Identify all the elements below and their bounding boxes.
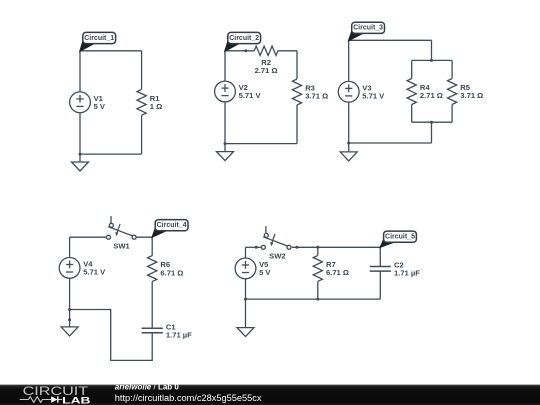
node c3 rail bottom junction (430, 121, 433, 124)
svg-text:2.71 Ω: 2.71 Ω (420, 91, 443, 100)
node c5 top junction b (295, 246, 298, 249)
wire c3 rail top (412, 59, 452, 61)
svg-text:LAB: LAB (62, 395, 90, 405)
svg-text:1 Ω: 1 Ω (150, 102, 162, 111)
wire c1 right lower (141, 115, 143, 154)
footer title text (115, 383, 180, 392)
svg-text:1.71 µF: 1.71 µF (166, 330, 192, 339)
net label Circuit_4 (152, 220, 188, 238)
wire c4 C1 bottom path (70, 310, 153, 361)
svg-text:SW1: SW1 (113, 241, 130, 250)
switch SW1 (107, 216, 137, 250)
wire c2 left upper (224, 51, 226, 81)
wire c1 left upper (79, 51, 81, 92)
wire c5 R7 lead dn (317, 281, 319, 299)
wire c3 gnd stem (348, 143, 350, 152)
resistor R3 (292, 79, 328, 105)
svg-text:5.71 V: 5.71 V (362, 92, 385, 101)
capacitor C2 (370, 261, 421, 278)
wire c5 node down (379, 247, 381, 266)
ground c2 (217, 152, 234, 161)
node c3 rail top junction (430, 59, 433, 62)
wire c4 node down (151, 237, 153, 255)
svg-text:1.71 µF: 1.71 µF (394, 269, 420, 278)
resistor R5 (448, 79, 484, 105)
wire c2 top left (225, 50, 254, 52)
wire c4 R6 to C1 (151, 282, 153, 329)
net label Circuit_2 (225, 32, 261, 51)
wire c5 V5 to top vertical (245, 247, 247, 258)
footer bar (0, 385, 540, 405)
wire c3 bottom (349, 142, 432, 144)
wire c4 V4 to switch vertical (69, 237, 71, 257)
node c2 top junction (244, 49, 247, 52)
wire c3 R5 lead up (451, 60, 453, 78)
resistor R1 (137, 89, 162, 115)
CircuitLab logo resistor-diode glyph (20, 396, 63, 402)
wire c5 gnd stem (245, 299, 247, 328)
node c5 top junction a (255, 246, 258, 249)
svg-text:http://circuitlab.com/c28x5g55: http://circuitlab.com/c28x5g55e55cx (115, 393, 262, 403)
voltage source V3 (338, 81, 385, 102)
wire c2 left lower (224, 102, 226, 144)
wire c4 V4 lower (69, 278, 71, 309)
svg-text:Circuit_2: Circuit_2 (229, 35, 259, 42)
svg-text:arielwolle / Lab 0: arielwolle / Lab 0 (115, 383, 180, 392)
net label Circuit_1 (80, 32, 116, 51)
svg-text:Circuit_5: Circuit_5 (385, 234, 415, 241)
ground c5 (237, 328, 254, 337)
node c4 gnd terminal (68, 318, 71, 321)
wire c2 bottom (225, 143, 297, 145)
wire c3 R4 lead dn (411, 105, 413, 123)
CircuitLab logo wordmark LAB (62, 395, 90, 405)
svg-text:Circuit_3: Circuit_3 (353, 25, 383, 32)
node c5 gnd junction (244, 298, 247, 301)
resistor R2 (254, 46, 278, 75)
net label Circuit_3 (348, 22, 384, 41)
wire c5 top seg1 (246, 246, 262, 248)
wire c2 top right (278, 50, 297, 52)
node c4 tee junction (68, 308, 71, 311)
wire c4 switch to node (136, 236, 152, 238)
wire c3 left lower (348, 102, 350, 143)
voltage source V5 (235, 258, 271, 279)
wire c3 top (349, 39, 432, 41)
svg-text:5.71 V: 5.71 V (239, 91, 262, 100)
footer url text (115, 393, 262, 403)
wire c5 R7 lead up (317, 247, 319, 255)
wire c4 gnd stem (69, 310, 71, 327)
wire c5 V5 lower (245, 279, 247, 299)
net label Circuit_5 (380, 231, 416, 247)
svg-text:Circuit_4: Circuit_4 (157, 222, 187, 229)
node c2 gnd junction (224, 142, 227, 145)
switch SW2 (261, 226, 291, 260)
svg-text:Circuit_1: Circuit_1 (84, 35, 114, 42)
node c5 bottom junction R7 (316, 298, 319, 301)
resistor R7 (313, 255, 349, 281)
svg-text:3.71 Ω: 3.71 Ω (460, 91, 483, 100)
svg-text:2.71 Ω: 2.71 Ω (255, 66, 278, 75)
wire c4 top left (70, 236, 107, 238)
CircuitLab logo wordmark CIRCUIT (23, 384, 89, 398)
svg-text:3.71 Ω: 3.71 Ω (305, 92, 328, 101)
wire c5 top seg2 (292, 246, 381, 248)
svg-text:5 V: 5 V (94, 102, 106, 111)
resistor R4 (407, 79, 443, 105)
ground c3 (340, 152, 357, 161)
wire c1 left lower (79, 113, 81, 154)
svg-text:6.71 Ω: 6.71 Ω (326, 268, 349, 277)
wire c3 feed down (431, 40, 433, 60)
wire c2 gnd stem (224, 144, 226, 152)
node c1 gnd junction (79, 153, 82, 156)
node c5 top junction R7 (316, 246, 319, 249)
wire c1 top (80, 50, 142, 52)
wire c3 R5 lead dn (451, 105, 453, 123)
wire c3 R4 lead up (411, 60, 413, 78)
wire c3 down from rail (431, 122, 433, 143)
wire c1 gnd stem (79, 154, 81, 162)
wire c2 right lower (296, 105, 298, 144)
wire c5 bottom (246, 298, 381, 300)
ground c1 (72, 162, 89, 171)
wire c1 bottom (80, 153, 142, 155)
svg-text:SW2: SW2 (269, 251, 285, 260)
wire c3 rail bottom (412, 121, 452, 123)
resistor R6 (148, 256, 184, 282)
node c3 gnd junction (347, 142, 350, 145)
voltage source V4 (59, 258, 106, 279)
capacitor C1 (142, 322, 193, 339)
voltage source V1 (70, 92, 106, 113)
wire c2 right upper (296, 51, 298, 79)
wire c1 right upper (141, 51, 143, 90)
svg-text:5.71 V: 5.71 V (83, 268, 106, 277)
svg-text:5 V: 5 V (259, 268, 271, 277)
ground c4 (61, 327, 78, 336)
wire c3 left upper (348, 40, 350, 81)
wire c5 C2 lead dn (379, 271, 381, 299)
svg-text:6.71 Ω: 6.71 Ω (160, 268, 183, 277)
voltage source V2 (215, 81, 262, 102)
